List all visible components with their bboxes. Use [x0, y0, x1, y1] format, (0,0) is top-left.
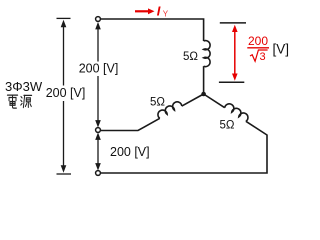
svg-text:I: I [157, 3, 161, 18]
svg-text:200 [V]: 200 [V] [110, 145, 150, 159]
svg-text:[V]: [V] [273, 42, 290, 57]
svg-text:5Ω: 5Ω [220, 120, 235, 132]
svg-text:200 [V]: 200 [V] [46, 86, 86, 100]
svg-text:200 [V]: 200 [V] [79, 62, 119, 76]
svg-text:Y: Y [163, 9, 169, 18]
svg-text:3Φ3W: 3Φ3W [5, 79, 43, 94]
svg-text:5Ω: 5Ω [183, 51, 198, 63]
svg-text:5Ω: 5Ω [150, 97, 165, 109]
svg-text:200: 200 [248, 34, 268, 48]
svg-text:3: 3 [259, 51, 265, 63]
